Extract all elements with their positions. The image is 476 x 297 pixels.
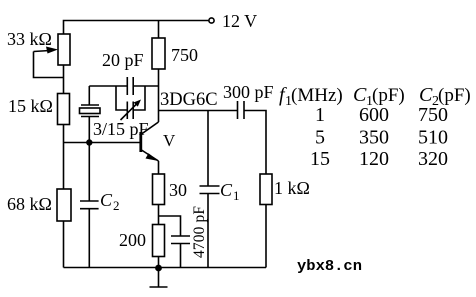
crystal B1 leads bbox=[88, 86, 90, 143]
svg-text:15 kΩ: 15 kΩ bbox=[8, 96, 53, 116]
terminal 12V bbox=[209, 18, 214, 23]
wire bottom rail bbox=[64, 267, 267, 269]
svg-text:1: 1 bbox=[233, 188, 240, 203]
wire node A rail crystal to caps bbox=[89, 85, 127, 87]
svg-text:C: C bbox=[220, 180, 233, 200]
table header C2 (pF) bbox=[419, 84, 471, 109]
svg-text:20 pF: 20 pF bbox=[102, 50, 144, 70]
svg-text:68 kΩ: 68 kΩ bbox=[7, 194, 52, 214]
svg-text:300 pF: 300 pF bbox=[223, 82, 274, 102]
svg-text:200: 200 bbox=[119, 230, 146, 250]
wire parallel loop left bbox=[116, 86, 127, 110]
label 4700 pF rotated bbox=[191, 206, 208, 258]
label 20 pF bbox=[102, 50, 144, 70]
transistor V emitter lead with arrow bbox=[142, 150, 159, 161]
node dot base junction bbox=[86, 139, 92, 145]
wire 30 to 200 bbox=[158, 205, 160, 225]
svg-text:320: 320 bbox=[418, 148, 448, 170]
label 750 bbox=[171, 45, 198, 65]
svg-text:750: 750 bbox=[418, 104, 448, 126]
table row 2 values bbox=[315, 127, 448, 149]
ground symbol bbox=[150, 268, 168, 287]
crystal B1 plates bbox=[81, 105, 99, 117]
wire top supply rail bbox=[64, 21, 209, 35]
wire 1k to bottom rail bbox=[265, 205, 267, 268]
label 200 bbox=[119, 230, 146, 250]
potentiometer R1 33k body bbox=[58, 34, 70, 65]
resistor R7 1k body bbox=[260, 174, 272, 205]
capacitor 4700pF plates bbox=[171, 236, 190, 244]
svg-text:12 V: 12 V bbox=[222, 11, 257, 31]
wire 20pF to collector line bbox=[133, 85, 158, 87]
resistor R2 15k body bbox=[58, 94, 70, 125]
table row 1 values bbox=[315, 104, 448, 126]
label C1 bbox=[220, 180, 240, 203]
wire 15k to base rail junction bbox=[63, 125, 65, 190]
label 30 bbox=[169, 180, 187, 200]
svg-text:(pF): (pF) bbox=[372, 85, 405, 106]
svg-text:1: 1 bbox=[315, 104, 325, 126]
wire 300pF to 1k bbox=[244, 111, 266, 175]
svg-text:V: V bbox=[163, 131, 176, 150]
capacitor 300pF plates bbox=[238, 101, 245, 119]
resistor R5 30 body bbox=[153, 174, 165, 205]
svg-text:5: 5 bbox=[315, 127, 325, 149]
resistor R4 750 body bbox=[152, 38, 165, 69]
svg-text:750: 750 bbox=[171, 45, 198, 65]
transistor V collector lead bbox=[142, 122, 159, 134]
svg-text:600: 600 bbox=[359, 104, 389, 126]
resistor R4 750 lead top bbox=[158, 21, 160, 39]
wire 4700pF to bottom rail bbox=[180, 244, 182, 268]
capacitor C2 lead bottom bbox=[88, 209, 90, 268]
wire parallel loop right bbox=[133, 86, 145, 110]
label 68 kOhm bbox=[7, 194, 52, 214]
node dot ground junction bbox=[155, 265, 162, 272]
svg-text:120: 120 bbox=[359, 148, 389, 170]
svg-text:3/15 pF: 3/15 pF bbox=[93, 119, 149, 139]
svg-text:(MHz): (MHz) bbox=[291, 85, 343, 106]
wire 750 to collector node bbox=[158, 69, 160, 122]
wire collector rail bbox=[159, 110, 238, 112]
svg-text:ybx8.cn: ybx8.cn bbox=[297, 258, 362, 275]
crystal B1 body bbox=[80, 108, 101, 114]
wire base rail bbox=[64, 142, 140, 144]
trimmer capacitor arrow bbox=[121, 100, 142, 121]
svg-text:3DG6C: 3DG6C bbox=[160, 90, 218, 110]
label 15 kOhm bbox=[8, 96, 53, 116]
svg-text:4700 pF: 4700 pF bbox=[191, 206, 208, 258]
capacitor C1 lead top bbox=[207, 111, 209, 187]
svg-text:15: 15 bbox=[310, 148, 330, 170]
watermark ybx8.cn bbox=[297, 258, 362, 275]
svg-text:350: 350 bbox=[359, 127, 389, 149]
table header f1 (MHz) bbox=[279, 84, 343, 109]
label 300 pF bbox=[223, 82, 274, 102]
svg-text:C: C bbox=[353, 84, 367, 106]
svg-text:510: 510 bbox=[418, 127, 448, 149]
wire emitter to 30 bbox=[158, 161, 160, 174]
transistor V base bar bbox=[139, 132, 142, 152]
svg-text:2: 2 bbox=[113, 198, 120, 213]
capacitor C1 plates bbox=[200, 186, 220, 194]
svg-text:33 kΩ: 33 kΩ bbox=[7, 29, 52, 49]
wire 68k to bottom rail bbox=[63, 221, 65, 268]
wire 33k to 15k bbox=[63, 65, 65, 94]
capacitor C2 lead top bbox=[88, 143, 90, 202]
wire 200 to bottom rail bbox=[158, 257, 160, 268]
svg-text:1 kΩ: 1 kΩ bbox=[274, 178, 310, 198]
trimmer capacitor 3/15pF plates bbox=[127, 102, 133, 120]
table header C1 (pF) bbox=[353, 84, 405, 109]
label 3/15 pF bbox=[93, 119, 149, 139]
label 12 V bbox=[222, 11, 257, 31]
label 3DG6C bbox=[160, 90, 218, 110]
label 1 kOhm bbox=[274, 178, 310, 198]
label 33 kOhm bbox=[7, 29, 52, 49]
table row 3 values bbox=[310, 148, 448, 170]
capacitor C1 lead bottom bbox=[207, 194, 209, 268]
resistor R3 68k body bbox=[57, 189, 71, 221]
capacitor C2 plates bbox=[80, 201, 99, 209]
capacitor 20pF plates bbox=[127, 77, 133, 95]
resistor R6 200 body bbox=[153, 225, 165, 257]
potentiometer R1 wiper arrow bbox=[34, 47, 64, 78]
label C2 bbox=[100, 190, 120, 213]
svg-text:30: 30 bbox=[169, 180, 187, 200]
svg-text:C: C bbox=[100, 190, 113, 210]
svg-text:C: C bbox=[419, 84, 433, 106]
wire emitter branch to 4700pF bbox=[159, 216, 181, 236]
svg-text:(pF): (pF) bbox=[438, 85, 471, 106]
label V transistor bbox=[163, 131, 176, 150]
